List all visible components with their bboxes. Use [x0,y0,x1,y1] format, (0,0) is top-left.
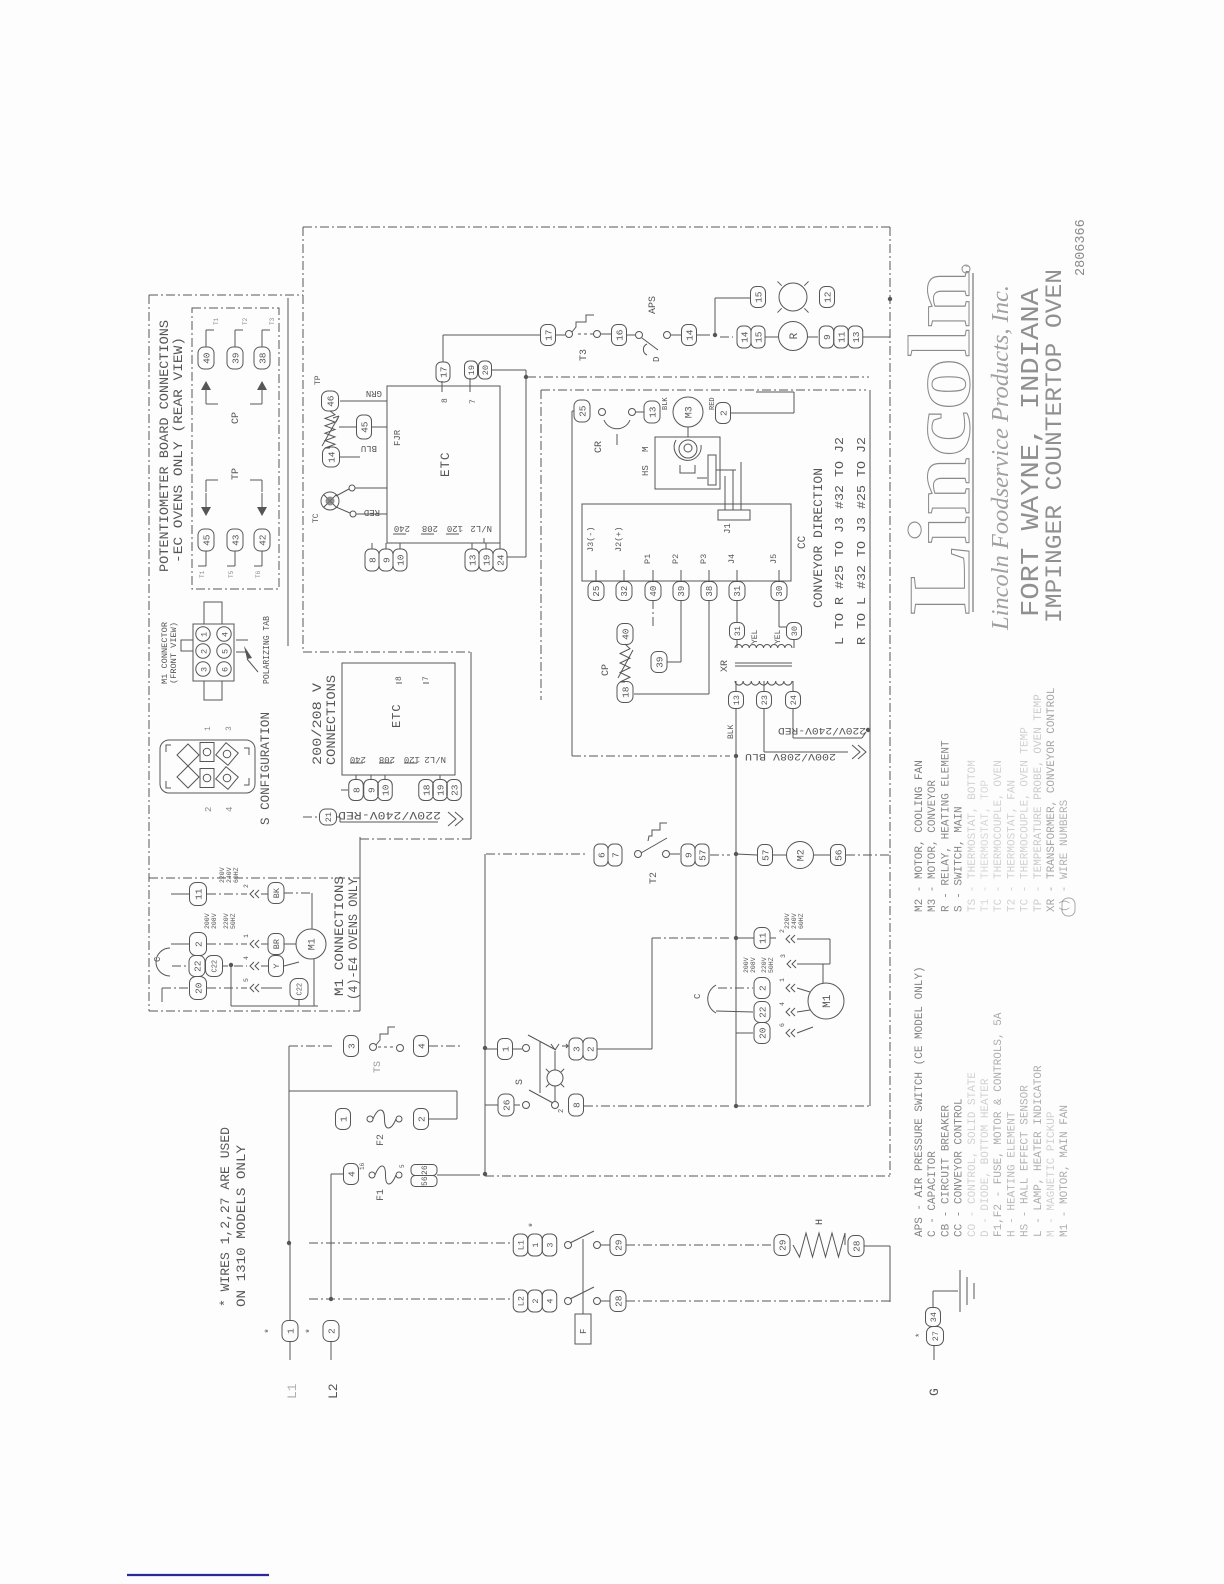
svg-text:C: C [693,993,703,999]
svg-text:13: 13 [467,554,478,566]
svg-text:3: 3 [225,726,234,731]
svg-text:POLARIZING TAB: POLARIZING TAB [262,615,272,684]
svg-text:6: 6 [596,852,607,858]
svg-text:TP: TP [231,468,242,480]
svg-text:4: 4 [546,1299,556,1304]
svg-text:200V: 200V [743,957,750,973]
svg-text:N/L2: N/L2 [470,523,492,533]
svg-text:2: 2 [585,1046,596,1052]
svg-text:208V: 208V [211,913,218,929]
svg-text:4: 4 [346,1171,357,1177]
svg-text:24: 24 [789,695,799,705]
svg-text:19: 19 [435,784,446,796]
svg-text:28: 28 [851,1240,862,1252]
svg-text:1: 1 [338,1116,349,1122]
svg-text:7: 7 [469,399,478,404]
svg-text:T3: T3 [579,349,590,361]
svg-text:2: 2 [558,1109,566,1113]
svg-text:* WIRES 1,2,27 ARE USED: * WIRES 1,2,27 ARE USED [219,1127,233,1307]
svg-text:220V: 220V [223,913,230,929]
svg-text:16: 16 [359,1162,366,1170]
svg-text:40: 40 [620,628,631,640]
svg-text:19: 19 [467,365,477,375]
svg-text:20: 20 [193,982,204,994]
svg-text:M1 CONNECTOR: M1 CONNECTOR [161,622,170,684]
svg-text:(FRONT VIEW): (FRONT VIEW) [170,622,179,684]
svg-text:J5: J5 [769,554,779,564]
svg-text:M3: M3 [685,406,696,418]
svg-text:YEL: YEL [774,629,783,644]
svg-text:M - MAGNETIC PICKUP: M - MAGNETIC PICKUP [1046,1111,1058,1237]
svg-text:Lincoln: Lincoln [892,270,989,615]
svg-text:R TO L #32 TO J3 #25 TO J2: R TO L #32 TO J3 #25 TO J2 [855,437,869,645]
svg-text:M1: M1 [308,938,319,950]
svg-text:M2 - MOTOR, COOLING FAN: M2 - MOTOR, COOLING FAN [914,760,926,912]
svg-text:3: 3 [346,1043,357,1049]
svg-text:P1: P1 [643,554,653,564]
svg-text:9: 9 [822,334,833,340]
svg-text:45: 45 [201,534,212,546]
svg-text:220V/240V-RED: 220V/240V-RED [778,724,866,736]
svg-text:BLK: BLK [727,724,736,739]
svg-text:1: 1 [531,1243,541,1248]
svg-text:17: 17 [543,329,554,340]
svg-text:N/L2: N/L2 [424,754,446,764]
svg-text:T1: T1 [213,317,220,325]
svg-text:220V: 220V [219,867,226,883]
svg-text:FJR: FJR [393,429,403,446]
svg-text:2: 2 [243,884,250,888]
svg-text:2: 2 [779,929,786,933]
svg-text:240V: 240V [791,913,798,929]
svg-text:2: 2 [416,1116,427,1122]
svg-text:1: 1 [243,934,250,938]
svg-text:4: 4 [416,1043,427,1049]
svg-text:4: 4 [225,807,235,812]
svg-text:8: 8 [367,557,378,563]
svg-text:28: 28 [613,1295,624,1307]
svg-text:BLU: BLU [361,443,377,453]
svg-text:HS: HS [641,465,651,476]
svg-text:240V: 240V [226,867,233,883]
svg-text:M3 - MOTOR, CONVEYOR: M3 - MOTOR, CONVEYOR [927,780,939,912]
svg-text:T1: T1 [199,570,206,578]
svg-text:R: R [789,332,801,339]
svg-text:32: 32 [620,586,630,597]
svg-text:L TO R #25 TO J3 #32 TO J2: L TO R #25 TO J3 #32 TO J2 [833,437,847,645]
svg-text:L2: L2 [326,1383,341,1399]
svg-text:25: 25 [592,586,602,597]
svg-text:ETC: ETC [390,703,404,728]
svg-text:27: 27 [931,1331,941,1341]
svg-text:XR: XR [720,660,731,672]
svg-text:CC - CONVEYOR CONTROL: CC - CONVEYOR CONTROL [954,1098,966,1237]
svg-text:M1 - MOTOR, MAIN FAN: M1 - MOTOR, MAIN FAN [1059,1105,1071,1237]
svg-text:31: 31 [733,586,743,597]
svg-text:10: 10 [380,784,391,796]
svg-text:6: 6 [779,1023,786,1027]
svg-text:14: 14 [326,451,337,463]
svg-text:39: 39 [230,352,241,364]
svg-text:3: 3 [546,1243,556,1248]
svg-text:CR: CR [594,441,605,453]
svg-text:D: D [652,357,662,362]
svg-text:2: 2 [199,649,209,654]
svg-text:1: 1 [500,1046,511,1052]
svg-text:39: 39 [654,656,665,668]
svg-text:1: 1 [204,726,213,731]
svg-text:CO - CONTROL, SOLID STATE: CO - CONTROL, SOLID STATE [967,1072,979,1237]
svg-text:22: 22 [192,960,203,972]
svg-text:CP: CP [601,664,612,676]
svg-text:CONVEYOR DIRECTION: CONVEYOR DIRECTION [812,468,826,608]
svg-text:S CONFIGURATION: S CONFIGURATION [259,712,273,825]
svg-text:HS - HALL EFFECT SENSOR: HS - HALL EFFECT SENSOR [1020,1085,1032,1237]
svg-text:RED: RED [364,507,380,517]
svg-text:5: 5 [243,978,250,982]
svg-text:APS: APS [648,296,659,314]
svg-text:56: 56 [421,1176,430,1186]
svg-text:4: 4 [220,632,230,637]
svg-text:208: 208 [422,523,438,533]
svg-text:T6: T6 [255,570,262,578]
svg-text:S: S [515,1079,526,1085]
svg-text:30: 30 [790,626,800,636]
svg-text:12: 12 [822,291,833,303]
svg-text:7: 7 [610,852,621,858]
svg-text:5: 5 [399,1164,406,1168]
svg-text:40: 40 [201,352,212,364]
svg-text:16: 16 [614,329,625,341]
svg-text:F1: F1 [376,1189,387,1201]
svg-text:23: 23 [760,695,770,705]
svg-text:H: H [815,1219,826,1225]
svg-text:42: 42 [257,534,268,546]
svg-text:11: 11 [836,331,847,343]
svg-text:9: 9 [381,557,392,563]
svg-text:T1 - THERMOSTAT, TOP: T1 - THERMOSTAT, TOP [980,780,992,912]
svg-text:2: 2 [718,410,729,416]
svg-text:39: 39 [677,586,687,597]
svg-text:19: 19 [481,554,492,566]
svg-text:2: 2 [193,941,204,947]
svg-text:r: r [965,264,971,267]
svg-text:220V: 220V [784,913,791,929]
svg-text:TC - THERMOCOUPLE, OVEN: TC - THERMOCOUPLE, OVEN [993,760,1005,912]
svg-text:P3: P3 [699,554,709,564]
svg-text:J4: J4 [727,554,737,564]
svg-text:T2 - THERMOSTAT, FAN: T2 - THERMOSTAT, FAN [1006,780,1018,912]
svg-text:200V: 200V [204,913,211,929]
svg-text:J2(+): J2(+) [614,526,624,552]
svg-text:ETC: ETC [439,451,453,477]
svg-text:45: 45 [359,421,370,433]
svg-text:POTENTIOMETER BOARD CONNECTION: POTENTIOMETER BOARD CONNECTIONS [158,320,172,572]
svg-text:XR - TRANSFORMER, CONVEYOR CON: XR - TRANSFORMER, CONVEYOR CONTROL [1046,688,1058,912]
svg-text:TP: TP [314,375,323,385]
svg-text:4: 4 [779,1002,786,1006]
svg-text:29: 29 [777,1239,788,1251]
svg-text:31: 31 [733,626,743,636]
svg-text:L - LAMP, HEATER INDICATOR: L - LAMP, HEATER INDICATOR [1033,1065,1045,1237]
svg-text:57: 57 [760,849,771,860]
svg-text:J1: J1 [723,523,733,534]
svg-text:8: 8 [571,1102,582,1108]
svg-text:R - RELAY, HEATING ELEMENT: R - RELAY, HEATING ELEMENT [940,740,952,912]
svg-text:57: 57 [697,849,708,860]
svg-text:20: 20 [757,1027,768,1039]
svg-text:8: 8 [441,398,450,403]
svg-text:5: 5 [220,649,230,654]
svg-text:240: 240 [394,523,410,533]
svg-text:F: F [579,1329,589,1334]
svg-text:F1,F2 - FUSE, MOTOR & CONTROLS: F1,F2 - FUSE, MOTOR & CONTROLS, 5A [993,1012,1005,1237]
svg-text:H - HEATING ELEMENT: H - HEATING ELEMENT [1006,1111,1018,1237]
svg-text:-EC OVENS ONLY (REAR VIEW): -EC OVENS ONLY (REAR VIEW) [172,337,186,563]
svg-text:CONNECTIONS: CONNECTIONS [325,675,339,765]
svg-text:60HZ: 60HZ [798,913,805,929]
svg-text:APS - AIR PRESSURE SWITCH (CE: APS - AIR PRESSURE SWITCH (CE MODEL ONLY… [914,966,926,1237]
svg-text:TP - TEMPERATURE PROBE, OVEN T: TP - TEMPERATURE PROBE, OVEN TEMP [1033,694,1045,912]
svg-text:3: 3 [199,667,209,672]
svg-text:TS: TS [373,1061,384,1073]
svg-text:17: 17 [438,366,449,377]
svg-text:BK: BK [272,887,282,898]
svg-text:*: * [528,1222,540,1228]
svg-text:C - CAPACITOR: C - CAPACITOR [927,1151,939,1237]
svg-text:*: * [264,1328,276,1334]
svg-text:26: 26 [421,1165,430,1175]
svg-text:L1: L1 [285,1383,300,1399]
svg-text:4: 4 [243,956,250,960]
svg-text:18: 18 [421,784,432,796]
svg-text:14: 14 [684,329,695,341]
svg-text:TC - THERMOCOUPLE, OVEN TEMP: TC - THERMOCOUPLE, OVEN TEMP [1020,727,1032,912]
svg-text:ON 1310 MODELS ONLY: ON 1310 MODELS ONLY [235,1144,249,1307]
svg-text:38: 38 [705,586,715,597]
svg-text:2: 2 [326,1328,337,1334]
svg-text:3: 3 [780,954,787,958]
svg-text:43: 43 [230,534,241,546]
svg-text:10: 10 [395,554,406,566]
svg-text:9: 9 [366,787,377,793]
svg-text:200/208 V: 200/208 V [311,682,325,765]
svg-text:13: 13 [732,695,742,705]
svg-text:3: 3 [571,1046,582,1052]
svg-text:14: 14 [739,331,750,343]
svg-text:9: 9 [683,852,694,858]
svg-text:7: 7 [422,676,431,681]
svg-text:50HZ: 50HZ [768,957,775,973]
svg-text:29: 29 [613,1239,624,1251]
svg-text:C: C [153,956,163,962]
svg-text:L2: L2 [517,1296,527,1306]
svg-text:6: 6 [220,667,230,672]
svg-text:13: 13 [851,331,862,343]
svg-text:Lincoln Foodservice Products,: Lincoln Foodservice Products, Inc. [988,285,1014,631]
svg-text:24: 24 [495,554,506,566]
svg-text:8: 8 [395,676,404,681]
svg-text:(4)-E4 OVENS ONLY: (4)-E4 OVENS ONLY [347,878,361,1000]
svg-text:() - WIRE NUMBERS: () - WIRE NUMBERS [1059,799,1071,912]
svg-text:1: 1 [199,632,209,637]
svg-text:34: 34 [929,1312,939,1322]
svg-text:C22: C22 [212,960,220,973]
svg-text:11: 11 [757,932,768,944]
svg-text:TC: TC [312,513,321,523]
svg-text:50HZ: 50HZ [230,913,237,929]
svg-text:CP: CP [231,412,242,424]
svg-text:CC: CC [797,535,809,549]
svg-text:M2: M2 [797,849,808,861]
svg-text:IMPINGER COUNTERTOP OVEN: IMPINGER COUNTERTOP OVEN [1042,269,1068,623]
svg-text:20: 20 [481,365,491,375]
svg-text:26: 26 [501,1099,512,1111]
svg-text:YEL: YEL [751,629,760,644]
svg-text:2: 2 [204,807,214,812]
svg-text:M: M [641,447,651,452]
svg-text:23: 23 [449,784,460,796]
svg-text:T2: T2 [242,317,249,325]
svg-text:25: 25 [577,405,588,417]
svg-text:2: 2 [757,985,768,991]
svg-text:*: * [305,1328,317,1334]
svg-text:J3(-): J3(-) [586,526,596,552]
svg-text:38: 38 [257,352,268,364]
svg-text:2: 2 [531,1299,541,1304]
svg-text:15: 15 [753,291,764,303]
svg-text:T2: T2 [649,872,660,884]
svg-text:BLK: BLK [662,397,670,410]
svg-text:60HZ: 60HZ [233,867,240,883]
svg-text:200V/208V BLU: 200V/208V BLU [745,750,836,762]
svg-text:CB - CIRCUIT BREAKER: CB - CIRCUIT BREAKER [940,1105,952,1237]
svg-text:S - SWITCH, MAIN: S - SWITCH, MAIN [954,806,966,912]
svg-text:2806366: 2806366 [1074,219,1089,276]
svg-text:8: 8 [351,787,362,793]
svg-text:15: 15 [753,331,764,343]
svg-text:1: 1 [779,978,786,982]
svg-text:Y: Y [272,964,282,969]
svg-text:40: 40 [649,586,659,597]
svg-text:M1: M1 [822,994,834,1008]
svg-text:T3: T3 [269,317,276,325]
svg-text:22: 22 [757,1006,768,1018]
svg-text:D - DIODE, BOTTOM HEATER: D - DIODE, BOTTOM HEATER [980,1078,992,1237]
svg-text:11: 11 [193,888,204,900]
svg-text:*: * [915,1333,925,1338]
svg-text:1: 1 [285,1328,296,1334]
svg-text:18: 18 [620,686,631,698]
svg-text:C22: C22 [297,983,305,996]
svg-text:GRN: GRN [366,388,382,398]
svg-text:56: 56 [833,849,844,861]
svg-text:L1: L1 [517,1240,527,1250]
svg-text:30: 30 [775,586,785,597]
svg-text:220V: 220V [761,957,768,973]
svg-text:208V: 208V [750,957,757,973]
svg-text:TS - THERMOSTAT, BOTTOM: TS - THERMOSTAT, BOTTOM [967,760,979,912]
svg-text:G: G [927,1388,942,1396]
svg-text:120: 120 [447,523,463,533]
svg-text:13: 13 [647,406,658,418]
svg-text:P2: P2 [671,554,681,564]
svg-text:46: 46 [325,395,336,407]
svg-text:M1 CONNECTIONS: M1 CONNECTIONS [333,876,347,996]
svg-text:F2: F2 [376,1134,387,1146]
svg-text:BR: BR [272,939,282,949]
svg-text:220V/240V-RED: 220V/240V-RED [338,808,441,820]
svg-text:21: 21 [324,812,334,822]
svg-text:T5: T5 [228,570,235,578]
